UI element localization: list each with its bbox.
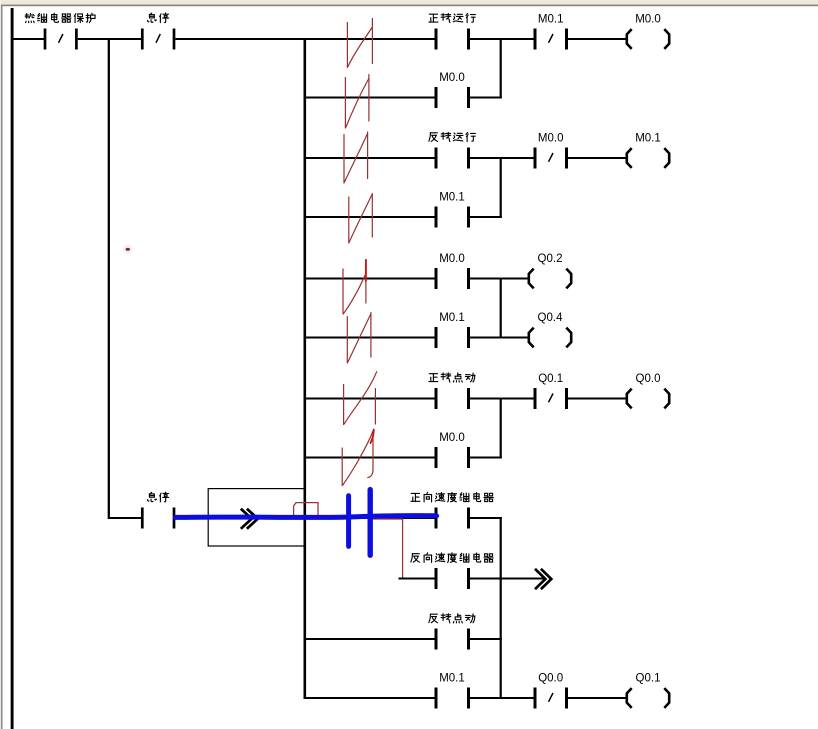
wire rung5 to coil [470,278,529,280]
wire rung1 to M0.1 contact [470,38,534,40]
contact M0.1 row4 [436,207,469,228]
svg-text:Q0.1: Q0.1 [636,673,661,685]
wire rung1 to coil [568,38,627,40]
contact 正转运行 [436,29,469,50]
wire rung3 to M0.0 contact [470,157,534,159]
label 反转运行 [429,132,476,141]
contact 反转点动 [436,629,469,650]
window top frame bar [0,0,818,7]
wire junction rows1-2 [500,38,502,99]
svg-text:M0.1: M0.1 [635,133,661,145]
svg-text:M0.0: M0.0 [439,432,465,444]
wire rung3 spine to contact [306,157,435,159]
wire rung11 spine to contact [306,638,435,640]
red pen scribble 1 [347,19,372,68]
wire rung12 spine to contact [306,697,435,699]
wire rung12 to coil [568,697,627,699]
contact 反向速度继电器 [436,568,469,589]
coil Q0.2 [529,269,571,289]
contact Q0.0 NC [535,688,567,709]
svg-text:Q0.2: Q0.2 [538,253,563,265]
skip symbol chevrons in box [241,509,258,529]
red pen dot near branch [123,245,132,254]
svg-text:M0.0: M0.0 [439,253,465,265]
jump arrow chevrons row10 [535,569,551,589]
wire rung4 spine to contact [306,216,435,218]
wire rung2 to junction [470,97,502,99]
center spine vertical [303,38,306,699]
wire rung8 spine to contact [306,457,435,459]
svg-text:M0.1: M0.1 [439,312,465,324]
label 反向速度继电器 [411,553,493,563]
red pen scribble 4 [349,194,373,244]
svg-text:Q0.1: Q0.1 [538,373,563,385]
wire rung12 to Q0.0 contact [470,697,534,699]
label 正转点动 [429,373,475,382]
wire rung6 to coil [470,337,529,339]
label 反转点动 [429,614,475,623]
window left frame edge [0,0,4,729]
blue marker bar 1 [346,496,351,547]
coil Q0.0 [627,389,669,409]
coil Q0.1 [627,688,669,708]
coil Q0.4 [529,328,571,348]
contact Q0.1 NC [535,388,567,409]
wire junction rows7-8 [500,398,502,459]
svg-text:M0.1: M0.1 [439,673,465,685]
svg-text:M0.1: M0.1 [439,192,465,204]
contact 正向速度继电器 [436,508,469,529]
red pen scribble 2 [345,75,369,129]
annotation box around skip symbol [208,489,305,546]
svg-text:M0.0: M0.0 [439,72,465,84]
wire junction rows9-12 [500,517,502,699]
contact 急停 row9 [142,508,174,529]
label 正向速度继电器 [411,492,493,502]
red pen scribble 8 [342,429,374,486]
label 热继电器保护 [25,13,95,22]
wire rung10 left stub [399,578,435,580]
contact M0.0 row5 [436,268,469,289]
contact M0.1 row6 [436,327,469,348]
wire junction rows3-4 [500,157,502,218]
contact M0.1 row12 [436,688,469,709]
label 急停 row1 [148,13,169,23]
wire rung7 spine to contact [306,398,435,400]
left power rail [11,8,14,729]
red pen scribble 3 [344,132,368,183]
contact M0.0 row8 [436,447,469,468]
contact 反转运行 [436,148,469,169]
svg-text:M0.0: M0.0 [538,133,564,145]
red pen scribble 5 [343,260,366,315]
contact 急停 NC [142,29,174,50]
wire rung1 to center [175,38,434,40]
wire rung6 spine to contact [306,337,435,339]
svg-text:Q0.0: Q0.0 [538,673,563,685]
wire rung1 rail to contact [14,38,45,40]
contact 热继电器保护 NC [45,29,76,50]
wire rung2 spine to contact [306,97,435,99]
contact M0.0 row2 [436,87,469,108]
red pen scribble 6 [347,313,371,364]
wire rung7 to Q0.1 contact [470,398,534,400]
contact 正转点动 [436,388,469,409]
svg-text:M0.0: M0.0 [635,14,661,26]
wire rung4 to junction [470,216,502,218]
contact M0.1 NC [535,29,567,50]
wire rung9 to junction [470,517,502,519]
wire rung10 to arrow [470,578,545,580]
blue marker bar 2 [368,490,373,556]
red pen rectangle over spine [294,503,318,518]
red pen connector down to rung10 [373,519,403,578]
wire rung3 to coil [568,157,627,159]
label 急停 row9 [148,492,169,502]
blue marker horizontal stroke [175,516,436,518]
wire junction rows5-6 [500,278,502,339]
contact M0.0 NC row3 [535,148,567,169]
coil M0.1 [627,148,669,168]
wire rung9 to center contact [175,517,434,519]
red pen scribble 7 [344,372,377,425]
svg-text:M0.1: M0.1 [538,14,564,26]
wire rung7 to coil [568,398,627,400]
branch vertical to emergency-stop rung [108,38,110,519]
wire rung5 spine to contact [306,278,435,280]
wire rung11 to junction [470,638,502,640]
wire rung8 to junction [470,457,502,459]
svg-text:Q0.4: Q0.4 [538,312,564,324]
red pen tick above blue bar [371,495,373,501]
wire rung9 branch to contact [108,517,142,519]
coil M0.0 [627,29,669,49]
wire rung1 segment [78,38,142,40]
svg-text:Q0.0: Q0.0 [636,373,661,385]
label 正转运行 [429,13,476,22]
